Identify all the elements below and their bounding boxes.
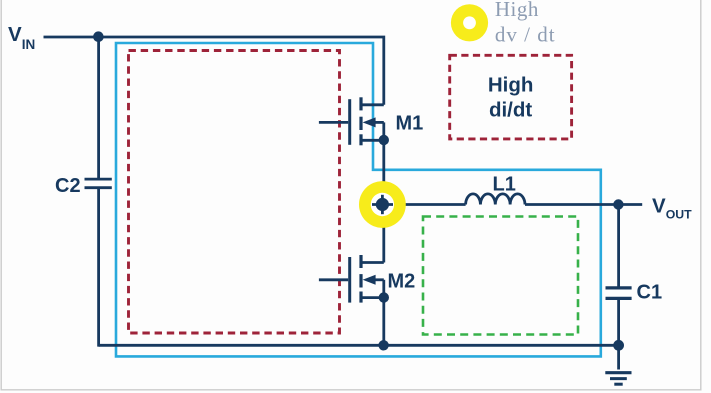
wire: switch node column (M1 source to M2 drain)	[382, 140, 385, 263]
node: M2 source at ground rail	[378, 340, 388, 350]
wire: ground stub below rail	[617, 345, 620, 369]
wire: C1 down to ground rail	[617, 298, 620, 345]
ground	[605, 373, 631, 385]
legend box: high di/dt (red dashed)	[450, 55, 572, 139]
transistor M2	[319, 255, 384, 303]
svg-text:C2: C2	[55, 175, 81, 197]
wire: C2 down to ground rail	[97, 188, 100, 347]
wire: L1 to VOUT	[525, 203, 642, 206]
node: C1 at ground rail	[613, 340, 624, 351]
svg-text:M2: M2	[388, 271, 416, 293]
transistor M1	[319, 97, 384, 145]
inductor L1	[466, 194, 525, 205]
svg-text:High: High	[495, 0, 539, 21]
node: VOUT junction	[613, 199, 623, 209]
wire: ground rail (bottom)	[99, 344, 619, 347]
node: VIN junction	[93, 31, 104, 42]
switch node high dv/dt marker (yellow ring)	[359, 181, 406, 228]
wire: VOUT node down to C1	[617, 205, 620, 288]
node: switch node junction (dot with crosshair)	[372, 195, 393, 214]
wire: M2 source to ground rail	[382, 298, 385, 346]
wire: VIN node down to C2	[97, 37, 100, 179]
svg-text:L1: L1	[493, 174, 516, 196]
output loop region (green dashed)	[423, 217, 578, 335]
svg-text:M1: M1	[396, 113, 424, 135]
high di/dt loop region (red dashed)	[129, 51, 340, 334]
capacitor C1	[606, 288, 632, 299]
svg-text:dv / dt: dv / dt	[495, 22, 556, 46]
legend marker: high dv/dt (yellow ring)	[451, 4, 488, 41]
wire: VIN input rail to M1 drain	[44, 37, 384, 105]
wire: switch node to L1 (output)	[375, 203, 466, 206]
node: M2 source junction	[379, 292, 389, 302]
node: M1 source junction	[379, 135, 389, 145]
capacitor C2	[85, 179, 112, 188]
svg-text:di/dt: di/dt	[489, 99, 532, 122]
svg-text:C1: C1	[637, 282, 663, 304]
hot loop highlight outline (cyan)	[116, 43, 601, 356]
svg-text:High: High	[488, 74, 534, 97]
